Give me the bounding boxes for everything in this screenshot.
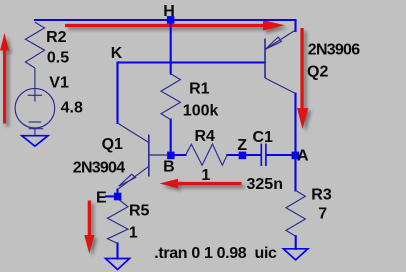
svg-text:R1: R1 <box>189 81 210 98</box>
svg-text:A: A <box>297 147 309 164</box>
svg-text:H: H <box>163 3 175 20</box>
svg-text:1: 1 <box>129 225 138 242</box>
svg-text:C1: C1 <box>253 129 274 146</box>
svg-text:R5: R5 <box>129 203 150 220</box>
svg-text:V1: V1 <box>49 75 69 92</box>
svg-text:1: 1 <box>201 167 210 184</box>
svg-text:B: B <box>163 159 175 176</box>
svg-text:R2: R2 <box>46 29 67 46</box>
svg-text:4.8: 4.8 <box>61 99 83 116</box>
svg-text:2N3906: 2N3906 <box>308 41 360 58</box>
svg-text:Z: Z <box>237 137 247 154</box>
svg-text:Q1: Q1 <box>102 136 123 153</box>
svg-text:100k: 100k <box>183 103 219 120</box>
svg-text:E: E <box>96 190 107 207</box>
svg-text:.tran 0 1 0.98 uic: .tran 0 1 0.98 uic <box>154 245 277 262</box>
svg-text:Q2: Q2 <box>307 63 328 80</box>
svg-text:7: 7 <box>318 206 327 223</box>
svg-text:K: K <box>111 45 123 62</box>
svg-text:R3: R3 <box>311 187 332 204</box>
svg-text:R4: R4 <box>195 128 216 145</box>
svg-text:325n: 325n <box>247 176 283 193</box>
svg-text:0.5: 0.5 <box>47 50 69 67</box>
svg-text:2N3904: 2N3904 <box>73 160 125 177</box>
